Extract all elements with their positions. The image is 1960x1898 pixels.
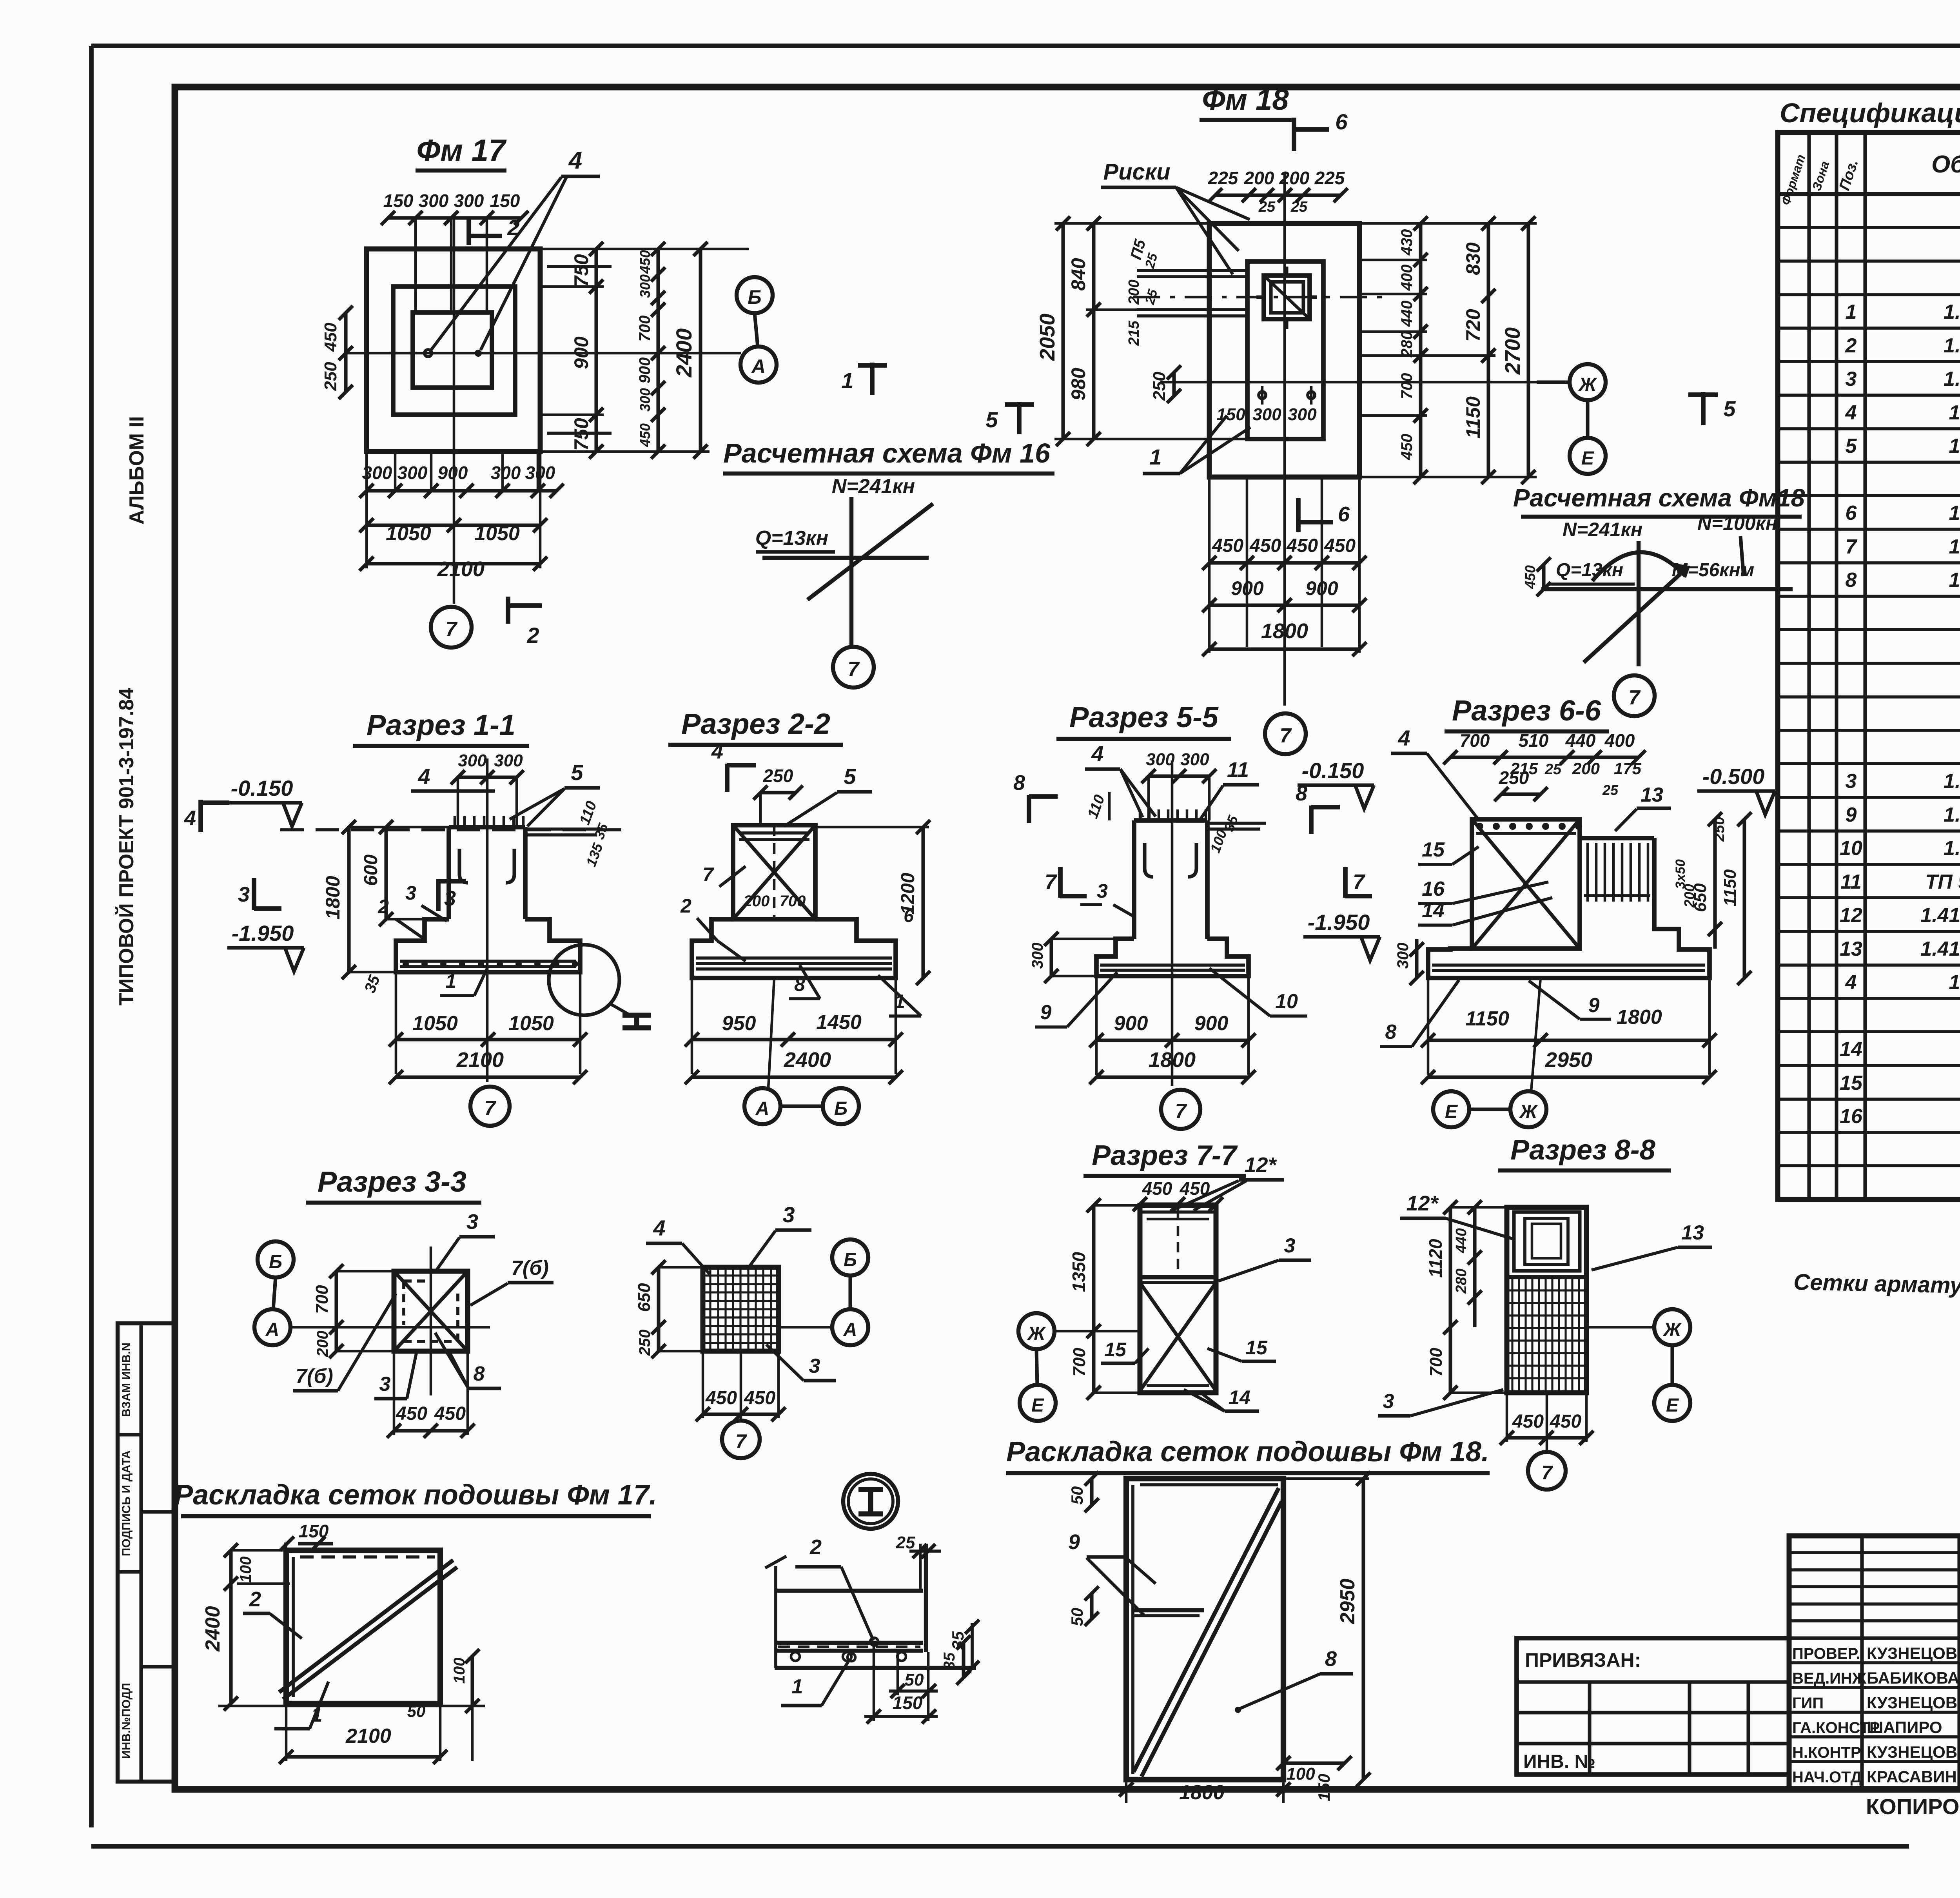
elevation mark -0.500 (6-6) bbox=[1697, 764, 1775, 815]
plan Фм18 outer contour bbox=[1209, 223, 1359, 477]
label 13 with leader (6-6) bbox=[1615, 784, 1671, 831]
svg-text:35: 35 bbox=[941, 1652, 958, 1670]
svg-text:150: 150 bbox=[383, 191, 414, 211]
detail I label 1 bbox=[781, 1653, 855, 1706]
svg-text:Б: Б bbox=[844, 1250, 857, 1270]
title block staff signatures bbox=[1792, 1644, 1960, 1786]
label 7 with leader (2-2) bbox=[702, 864, 746, 887]
section mark 4 (2-2) bbox=[711, 740, 756, 792]
detail I slab top line bbox=[775, 1589, 923, 1593]
svg-text:25: 25 bbox=[1290, 199, 1308, 215]
svg-text:Раскладка сеток подошвы Фм 18.: Раскладка сеток подошвы Фм 18. bbox=[1006, 1436, 1489, 1468]
svg-text:200: 200 bbox=[1126, 279, 1142, 305]
label 4 with leader (4-4) bbox=[646, 1216, 710, 1274]
detail circle I (1-1) bbox=[549, 945, 651, 1028]
section mark 3 right (1-1) bbox=[438, 879, 466, 911]
svg-text:450: 450 bbox=[637, 250, 653, 274]
title Фм 17 bbox=[416, 133, 507, 171]
svg-text:КОПИРОВАЛ: ЛОГИНОВА: КОПИРОВАЛ: ЛОГИНОВА bbox=[1866, 1794, 1960, 1819]
svg-text:50: 50 bbox=[1068, 1486, 1086, 1505]
schema Фм18 axis horizontal bbox=[1541, 587, 1793, 591]
dim 900 900 (5-5) bbox=[1089, 976, 1256, 1075]
svg-text:200: 200 bbox=[1244, 168, 1274, 188]
section 1-1 rebar hooks bbox=[459, 849, 514, 883]
svg-text:2950: 2950 bbox=[1336, 1579, 1359, 1624]
svg-text:12*: 12* bbox=[1406, 1192, 1439, 1215]
right dim column 450-300-200-700-900 bbox=[636, 242, 665, 459]
svg-text:1.412.1-4.060: 1.412.1-4.060 bbox=[1949, 971, 1960, 994]
svg-text:1050: 1050 bbox=[412, 1012, 458, 1035]
svg-text:15: 15 bbox=[1422, 838, 1445, 861]
svg-text:ИНВ.№ПОДЛ: ИНВ.№ПОДЛ bbox=[120, 1683, 133, 1759]
svg-text:-0.150: -0.150 bbox=[231, 776, 293, 800]
detail I slab mesh bbox=[775, 1643, 923, 1661]
axis bubble Ж (7-7) bbox=[1018, 1313, 1140, 1349]
label 3 bottom (4-4) bbox=[766, 1345, 836, 1381]
svg-text:7: 7 bbox=[735, 1430, 747, 1452]
svg-text:Е: Е bbox=[1031, 1395, 1045, 1416]
axis bubble Е (6-6) bbox=[1433, 1091, 1469, 1127]
dim 300 300 top (1-1) bbox=[451, 751, 524, 827]
axis bubble Ж (Фм18) bbox=[1537, 364, 1606, 400]
dim 1800 left (1-1) bbox=[322, 820, 449, 979]
svg-text:15: 15 bbox=[1104, 1339, 1127, 1361]
axis bubble А (4-4) bbox=[832, 1276, 868, 1345]
svg-text:А: А bbox=[755, 1098, 769, 1119]
svg-text:7: 7 bbox=[848, 658, 860, 680]
svg-text:150: 150 bbox=[1315, 1774, 1333, 1801]
plan Фм17 centerline vertical bbox=[453, 220, 456, 604]
dim 35 bottom (1-1) bbox=[361, 973, 384, 995]
section 1-1 centerline bbox=[486, 758, 489, 1082]
dim 150 top (Фм17 layout) bbox=[280, 1521, 333, 1551]
svg-text:4: 4 bbox=[1397, 726, 1410, 750]
svg-text:5: 5 bbox=[571, 760, 583, 785]
label 14 with leader (6-6) bbox=[1418, 898, 1552, 925]
svg-text:Фм 18: Фм 18 bbox=[1202, 83, 1289, 116]
svg-text:7(б): 7(б) bbox=[511, 1257, 549, 1279]
svg-text:КУЗНЕЦОВ: КУЗНЕЦОВ bbox=[1867, 1693, 1957, 1712]
svg-text:8: 8 bbox=[1846, 569, 1857, 592]
svg-text:830: 830 bbox=[1462, 242, 1484, 275]
svg-text:2100: 2100 bbox=[437, 557, 485, 581]
dim 2950 (Фм18 layout) bbox=[1283, 1472, 1370, 1787]
label 3 top (3-3) bbox=[435, 1210, 495, 1272]
axis bubble А (Фм17) bbox=[740, 313, 777, 383]
right dim column 830-720-1150 (Фм18) bbox=[1462, 216, 1495, 484]
svg-text:510: 510 bbox=[1519, 730, 1549, 751]
schema Фм18 axis vertical bbox=[1637, 541, 1641, 666]
svg-text:11: 11 bbox=[1840, 871, 1862, 893]
section 3-3 axis line bbox=[290, 1247, 490, 1395]
label 9 with leader (6-6) bbox=[1529, 981, 1611, 1019]
svg-text:Расчетная схема Фм18: Расчетная схема Фм18 bbox=[1513, 484, 1805, 512]
svg-text:9: 9 bbox=[1068, 1530, 1080, 1554]
label 7(6) left (3-3) bbox=[293, 1294, 396, 1391]
svg-text:А: А bbox=[265, 1319, 279, 1340]
dim 50 mid (Фм18 layout) bbox=[1068, 1586, 1099, 1626]
svg-text:Разрез 2-2: Разрез 2-2 bbox=[681, 708, 830, 740]
svg-text:ИНВ. №: ИНВ. № bbox=[1523, 1751, 1595, 1772]
axis bubble 7 (4-4) bbox=[722, 1351, 760, 1458]
section 1-1 base mesh bbox=[400, 961, 578, 967]
label 3 (8-8) bbox=[1378, 1390, 1503, 1416]
svg-text:4: 4 bbox=[711, 740, 723, 763]
label Риски bbox=[1101, 159, 1250, 274]
svg-text:4: 4 bbox=[568, 147, 582, 174]
svg-text:1.412.1-4.080: 1.412.1-4.080 bbox=[1949, 569, 1960, 592]
axis bubble Б (2-2) bbox=[780, 1088, 859, 1124]
elevation mark -0.150 (1-1) bbox=[225, 776, 302, 826]
svg-text:450: 450 bbox=[1286, 535, 1318, 556]
svg-text:Б: Б bbox=[834, 1098, 848, 1119]
section 7-7 tall rect bbox=[1140, 1205, 1216, 1393]
plan Фм18 centerline horizontal bbox=[1160, 381, 1568, 384]
axis bubble Б (Фм17) bbox=[737, 277, 773, 313]
svg-text:1800: 1800 bbox=[1149, 1048, 1196, 1072]
svg-text:900: 900 bbox=[636, 357, 653, 384]
table header labels bbox=[1779, 141, 1960, 207]
svg-text:250: 250 bbox=[1499, 768, 1529, 788]
svg-text:440: 440 bbox=[1398, 301, 1416, 327]
svg-text:300: 300 bbox=[1180, 750, 1209, 769]
svg-text:280: 280 bbox=[1398, 331, 1416, 358]
svg-text:8: 8 bbox=[1013, 771, 1025, 795]
svg-text:700: 700 bbox=[1070, 1348, 1089, 1377]
svg-text:ГИП: ГИП bbox=[1792, 1695, 1824, 1712]
svg-text:13: 13 bbox=[1641, 784, 1663, 806]
svg-text:25: 25 bbox=[1544, 761, 1562, 778]
rotated project label bbox=[115, 688, 138, 1006]
dim row 225-200-200-225 (Фм18 top) bbox=[1208, 168, 1348, 215]
label 4 with leaders (5-5) bbox=[1085, 741, 1156, 817]
schema Фм18 dim 450 bbox=[1522, 557, 1551, 596]
svg-text:450: 450 bbox=[1324, 535, 1356, 556]
svg-text:БАБИКОВА: БАБИКОВА bbox=[1867, 1669, 1959, 1687]
svg-text:1: 1 bbox=[445, 970, 456, 992]
svg-text:ТП 901-3- КЖИ-64: ТП 901-3- КЖИ-64 bbox=[1925, 871, 1960, 893]
svg-text:1800: 1800 bbox=[322, 876, 344, 919]
svg-text:3: 3 bbox=[1846, 368, 1857, 390]
svg-text:700: 700 bbox=[1460, 730, 1490, 751]
svg-text:ШАПИРО: ШАПИРО bbox=[1867, 1718, 1942, 1737]
axis bubble 7 (8-8) bbox=[1528, 1393, 1566, 1490]
svg-text:Разрез 3-3: Разрез 3-3 bbox=[318, 1165, 466, 1198]
axis bubble 7 (Фм18 schema) bbox=[1614, 675, 1655, 716]
svg-text:16: 16 bbox=[1840, 1105, 1863, 1128]
svg-text:-0.500: -0.500 bbox=[1702, 764, 1765, 789]
section 6-6 step and slab contour bbox=[1428, 906, 1710, 978]
svg-text:300: 300 bbox=[397, 463, 428, 483]
dim row 700-510-440-400 (6-6) bbox=[1443, 730, 1646, 764]
svg-text:1050: 1050 bbox=[508, 1012, 554, 1035]
label 2 with leader (2-2) bbox=[680, 895, 746, 961]
svg-text:300: 300 bbox=[491, 463, 521, 483]
svg-text:1.412.1-4.080: 1.412.1-4.080 bbox=[1949, 535, 1960, 558]
plan Фм18 pedestal contour bbox=[1247, 261, 1323, 439]
svg-text:3: 3 bbox=[1284, 1234, 1296, 1257]
svg-text:280: 280 bbox=[1453, 1268, 1470, 1294]
svg-text:9: 9 bbox=[1040, 1001, 1052, 1024]
section mark 6 bottom (Фм18) bbox=[1298, 498, 1350, 532]
dim 2400 (Фм17 layout) bbox=[201, 1543, 485, 1711]
svg-text:450: 450 bbox=[1212, 535, 1243, 556]
axis bubble Б (3-3) bbox=[258, 1241, 294, 1277]
title Разрез 1-1 bbox=[353, 709, 529, 746]
svg-text:1.412.1-4.060: 1.412.1-4.060 bbox=[1949, 435, 1960, 457]
label 8 (3-3) bbox=[435, 1333, 501, 1388]
detail I left dim line bbox=[765, 1556, 786, 1668]
schema Фм16 axis horizontal bbox=[762, 556, 929, 560]
svg-text:900: 900 bbox=[1305, 577, 1338, 599]
svg-text:100: 100 bbox=[237, 1557, 254, 1583]
rotated album label bbox=[125, 416, 148, 525]
section 1-1 column top rebar ticks bbox=[455, 816, 523, 827]
section 6-6 block contour bbox=[1472, 819, 1582, 949]
svg-text:14: 14 bbox=[1840, 1038, 1862, 1061]
svg-text:А: А bbox=[751, 356, 766, 377]
svg-text:250: 250 bbox=[636, 1330, 653, 1356]
svg-text:200: 200 bbox=[314, 1331, 331, 1357]
svg-text:3: 3 bbox=[238, 883, 250, 906]
svg-text:980: 980 bbox=[1067, 368, 1089, 401]
axis bubble Е (Фм18) bbox=[1570, 400, 1606, 474]
svg-text:12*: 12* bbox=[1244, 1153, 1277, 1177]
section mark 5 (Фм18 right) bbox=[1688, 392, 1736, 425]
svg-text:Q=13кн: Q=13кн bbox=[1556, 560, 1623, 581]
dim 1200 right (2-2) bbox=[815, 820, 930, 985]
schema Фм18 load N=241 bbox=[1563, 519, 1642, 541]
label 1 with leader (2-2) bbox=[878, 975, 921, 1016]
svg-text:225: 225 bbox=[1208, 168, 1239, 188]
schema Фм16 axis vertical bbox=[849, 497, 853, 648]
dim 450 450 (8-8) bbox=[1500, 1393, 1593, 1445]
svg-text:ПОДПИСЬ И ДАТА: ПОДПИСЬ И ДАТА bbox=[120, 1450, 133, 1556]
label 15 left (7-7) bbox=[1101, 1339, 1149, 1363]
title Расчетная схема Фм18 bbox=[1513, 484, 1805, 517]
svg-text:1.412.1-4.050: 1.412.1-4.050 bbox=[1949, 401, 1960, 424]
svg-text:700: 700 bbox=[1426, 1348, 1446, 1377]
svg-text:450: 450 bbox=[705, 1388, 737, 1408]
svg-text:13: 13 bbox=[1840, 938, 1862, 960]
svg-text:Разрез 8-8: Разрез 8-8 bbox=[1510, 1134, 1655, 1166]
svg-text:900: 900 bbox=[1231, 577, 1264, 599]
section 1-1 step and slab contour bbox=[396, 919, 580, 972]
svg-text:6: 6 bbox=[904, 905, 914, 926]
leader and label 1 (Фм18) bbox=[1143, 416, 1250, 474]
section mark 3 left (1-1) bbox=[238, 878, 281, 910]
svg-text:300: 300 bbox=[1252, 405, 1281, 424]
svg-text:300: 300 bbox=[1029, 943, 1046, 969]
svg-text:15: 15 bbox=[1245, 1337, 1268, 1359]
label 12* with leader (7-7) bbox=[1170, 1153, 1284, 1211]
svg-text:300: 300 bbox=[1288, 405, 1317, 424]
svg-text:4: 4 bbox=[653, 1216, 665, 1240]
svg-text:300: 300 bbox=[637, 274, 653, 298]
svg-text:14: 14 bbox=[1422, 899, 1445, 922]
dim 250 (Фм18 plan) bbox=[1150, 365, 1181, 403]
svg-text:400: 400 bbox=[1398, 265, 1416, 291]
bottom dim row 300s (Фм17) bbox=[359, 452, 564, 498]
axis bubble 7 (Фм18 bottom) bbox=[1265, 713, 1306, 754]
specification table entries bbox=[1840, 198, 1960, 1195]
overlay lines right (1-1) bbox=[525, 799, 612, 869]
section 4-4 axis line bbox=[779, 1326, 832, 1329]
svg-text:3х50: 3х50 bbox=[1673, 859, 1688, 889]
section 5-5 step and slab contour bbox=[1096, 939, 1249, 976]
svg-text:440: 440 bbox=[1453, 1228, 1470, 1253]
svg-text:1800: 1800 bbox=[1617, 1006, 1662, 1029]
svg-text:14: 14 bbox=[1229, 1386, 1250, 1408]
label 15 with leader (6-6) bbox=[1418, 838, 1479, 864]
svg-text:Ж: Ж bbox=[1027, 1323, 1046, 1344]
label 9 with leader (5-5) bbox=[1035, 972, 1117, 1027]
layout Фм17 square bbox=[279, 1542, 457, 1705]
svg-text:Е: Е bbox=[1445, 1101, 1458, 1122]
title Разрез 6-6 bbox=[1445, 694, 1609, 731]
svg-text:1.412-1/77- В.3-020: 1.412-1/77- В.3-020 bbox=[1920, 938, 1960, 960]
title block left part bbox=[1517, 1638, 1789, 1775]
bottom dims 450x4 (Фм18) bbox=[1202, 477, 1367, 647]
svg-text:Ж: Ж bbox=[1662, 1319, 1682, 1340]
svg-text:200: 200 bbox=[1572, 759, 1600, 778]
svg-text:1: 1 bbox=[1846, 301, 1857, 323]
svg-text:430: 430 bbox=[1398, 229, 1416, 256]
section mark 5 (Фм16 schema) bbox=[985, 402, 1034, 434]
label Инв № bbox=[1523, 1751, 1595, 1772]
svg-text:Фм 17: Фм 17 bbox=[416, 133, 507, 167]
section 1-1 column contour bbox=[449, 827, 525, 919]
label 14 (7-7) bbox=[1184, 1386, 1259, 1411]
svg-text:Ж: Ж bbox=[1519, 1101, 1538, 1122]
schema Фм16 load Q bbox=[755, 527, 835, 552]
svg-text:50: 50 bbox=[407, 1702, 426, 1720]
svg-text:8: 8 bbox=[474, 1363, 485, 1385]
labels 200 700 inside (2-2) bbox=[743, 893, 806, 910]
svg-text:Н.КОНТР: Н.КОНТР bbox=[1792, 1744, 1861, 1761]
svg-text:1.410-2 Вып.1: 1.410-2 Вып.1 bbox=[1944, 334, 1960, 357]
svg-text:АЛЬБОМ II: АЛЬБОМ II bbox=[125, 416, 148, 525]
svg-text:450: 450 bbox=[1550, 1411, 1581, 1432]
svg-text:ВЕД.ИНЖ: ВЕД.ИНЖ bbox=[1792, 1670, 1867, 1687]
svg-text:2: 2 bbox=[1845, 334, 1857, 357]
svg-text:2100: 2100 bbox=[345, 1725, 391, 1747]
svg-text:Разрез 1-1: Разрез 1-1 bbox=[367, 709, 515, 741]
axis bubble Б (4-4) bbox=[832, 1239, 868, 1276]
plan Фм18 anchor dots bbox=[1259, 386, 1315, 405]
svg-text:5: 5 bbox=[1723, 396, 1736, 421]
schema Фм18 diagonal bbox=[1584, 569, 1686, 662]
section mark 2 bottom (Фм17) bbox=[508, 597, 542, 648]
label 3 with leader (4-4) bbox=[747, 1202, 811, 1270]
leader and label 5 (2-2) bbox=[784, 764, 872, 826]
label 3 with leader (5-5) bbox=[1080, 880, 1135, 917]
svg-text:2: 2 bbox=[809, 1535, 822, 1559]
dim 50 (Фм17 layout) bbox=[407, 1702, 426, 1720]
svg-text:900: 900 bbox=[1194, 1012, 1229, 1035]
svg-text:2: 2 bbox=[249, 1588, 261, 1611]
axis bubble Ж (8-8) bbox=[1586, 1309, 1690, 1345]
section 5-5 rebar hooks bbox=[1145, 843, 1196, 877]
label Копировал bbox=[1866, 1794, 1960, 1819]
dim 25 (detail I) bbox=[896, 1533, 941, 1558]
svg-text:3: 3 bbox=[405, 882, 416, 904]
section 6-6 base mesh lines bbox=[1432, 965, 1705, 971]
axis bubble 7 (1-1) bbox=[470, 1087, 510, 1126]
label 15 right (7-7) bbox=[1207, 1337, 1276, 1361]
plan Фм17 step contour bbox=[393, 287, 515, 415]
note about mesh poz.12 bbox=[1793, 1269, 1960, 1310]
svg-text:КУЗНЕЦОВ: КУЗНЕЦОВ bbox=[1867, 1644, 1957, 1662]
svg-text:1: 1 bbox=[841, 368, 853, 393]
svg-text:1150: 1150 bbox=[1720, 869, 1740, 906]
svg-text:7: 7 bbox=[446, 618, 458, 641]
dim 100 150 (Фм18 layout) bbox=[1276, 1756, 1352, 1801]
svg-text:Б: Б bbox=[748, 286, 761, 308]
svg-text:12: 12 bbox=[1840, 904, 1862, 927]
section 8-8 block with meshes bbox=[1507, 1207, 1586, 1393]
svg-text:720: 720 bbox=[1462, 309, 1484, 342]
schema Фм18 load Q bbox=[1548, 560, 1635, 584]
svg-text:КУЗНЕЦОВ: КУЗНЕЦОВ bbox=[1867, 1743, 1957, 1761]
embedded part leaders left (Фм18) bbox=[1126, 238, 1247, 346]
dim 300 left (5-5) bbox=[1029, 932, 1134, 983]
svg-text:1450: 1450 bbox=[816, 1011, 862, 1034]
label 11 with leader (5-5) bbox=[1200, 758, 1259, 819]
label 10 with leader (5-5) bbox=[1209, 968, 1307, 1016]
label 8 with leader (Фм18 layout) bbox=[1235, 1647, 1353, 1713]
label 13 with leader (8-8) bbox=[1592, 1221, 1712, 1270]
svg-text:450: 450 bbox=[1142, 1178, 1172, 1199]
svg-text:А: А bbox=[843, 1319, 857, 1340]
svg-text:1.412-1/77- В.3-130: 1.412-1/77- В.3-130 bbox=[1920, 904, 1960, 927]
svg-text:N=100кн: N=100кн bbox=[1697, 512, 1777, 534]
section mark 8 left (5-5) bbox=[1013, 771, 1058, 823]
dim row 215-25-200-175 (6-6) bbox=[1510, 759, 1642, 798]
svg-text:450: 450 bbox=[1512, 1411, 1544, 1432]
svg-text:6: 6 bbox=[1335, 109, 1348, 134]
bottom dims 900 900 (Фм18) bbox=[1202, 577, 1367, 612]
label 9 with leaders (Фм18 layout) bbox=[1068, 1530, 1156, 1616]
svg-text:3: 3 bbox=[379, 1373, 391, 1395]
dim 950 1450 (2-2) bbox=[685, 978, 903, 1074]
svg-text:6: 6 bbox=[1846, 502, 1857, 524]
section 5-5 base mesh lines bbox=[1100, 965, 1245, 970]
svg-text:3: 3 bbox=[466, 1210, 478, 1234]
dim 2100 (1-1) bbox=[389, 1048, 587, 1084]
dims right rotated (6-6) bbox=[1673, 812, 1751, 985]
section 3-3 square with cross bbox=[394, 1271, 468, 1351]
dim left 250-450 (Фм17) bbox=[321, 306, 353, 399]
svg-text:КРАСАВИН: КРАСАВИН bbox=[1867, 1767, 1957, 1786]
svg-text:7: 7 bbox=[1045, 870, 1058, 894]
svg-text:7: 7 bbox=[702, 864, 714, 885]
bottom dim 1050 1050 (Фм17) bbox=[359, 518, 547, 545]
svg-text:Q=13кн: Q=13кн bbox=[755, 527, 828, 550]
dim 1350 700 left (7-7) bbox=[1069, 1198, 1140, 1400]
svg-text:4: 4 bbox=[1845, 401, 1857, 424]
svg-text:225: 225 bbox=[1314, 168, 1345, 188]
svg-text:7(б): 7(б) bbox=[296, 1365, 333, 1388]
svg-text:150: 150 bbox=[490, 191, 520, 211]
svg-text:450: 450 bbox=[396, 1403, 427, 1424]
title Разрез 8-8 bbox=[1498, 1134, 1671, 1170]
dim 50 top (Фм18 layout) bbox=[1068, 1472, 1099, 1512]
dim 450 450 (3-3) bbox=[387, 1351, 475, 1438]
title Расчетная схема Фм 16 bbox=[723, 438, 1054, 474]
bottom dim 1800 (Фм18) bbox=[1202, 477, 1367, 656]
elevation mark -0.150 (between) bbox=[1298, 758, 1374, 809]
